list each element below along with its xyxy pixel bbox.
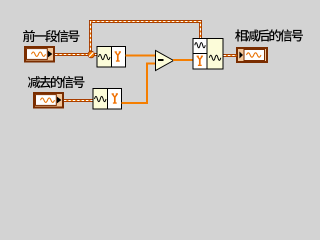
label: 相减后的信号 (signal after subtraction) (235, 29, 303, 41)
node: Subtract function (156, 51, 174, 71)
wire: 减去的信号 terminal to Get-Y B (waveform dashed wire) (64, 99, 94, 102)
wire: Get-Y B output to subtract y input (orange DBL-array wire) (122, 64, 157, 104)
label: 前一段信号 (previous segment signal) (23, 30, 79, 42)
terminal: 减去的信号 control (waveform control) (33, 92, 64, 109)
terminal: 相减后的信号 indicator (waveform indicator) (236, 47, 268, 63)
junction: wire branch solder dot (88, 51, 95, 58)
terminal: 前一段信号 control (waveform control) (24, 46, 55, 63)
wire: subtract output to Build Waveform Y input (orange DBL-array wire) (173, 59, 194, 61)
node: Build Waveform (193, 39, 223, 70)
label: 减去的信号 (signal to subtract) (28, 76, 85, 88)
node: Get Waveform Components A (top) (97, 47, 126, 68)
diagram background (0, 0, 316, 126)
wire: Build Waveform to indicator (waveform dashed wire) (224, 54, 237, 57)
wire: Get-Y A output to subtract x input (orange DBL-array wire) (126, 55, 157, 57)
node: Get Waveform Components B (bottom) (93, 89, 122, 110)
wire: 前一段信号 terminal to Get-Y A (waveform dashed wire) (55, 53, 97, 56)
wire: branch up-over to Build Waveform top (waveform dashed wire) (91, 22, 201, 55)
